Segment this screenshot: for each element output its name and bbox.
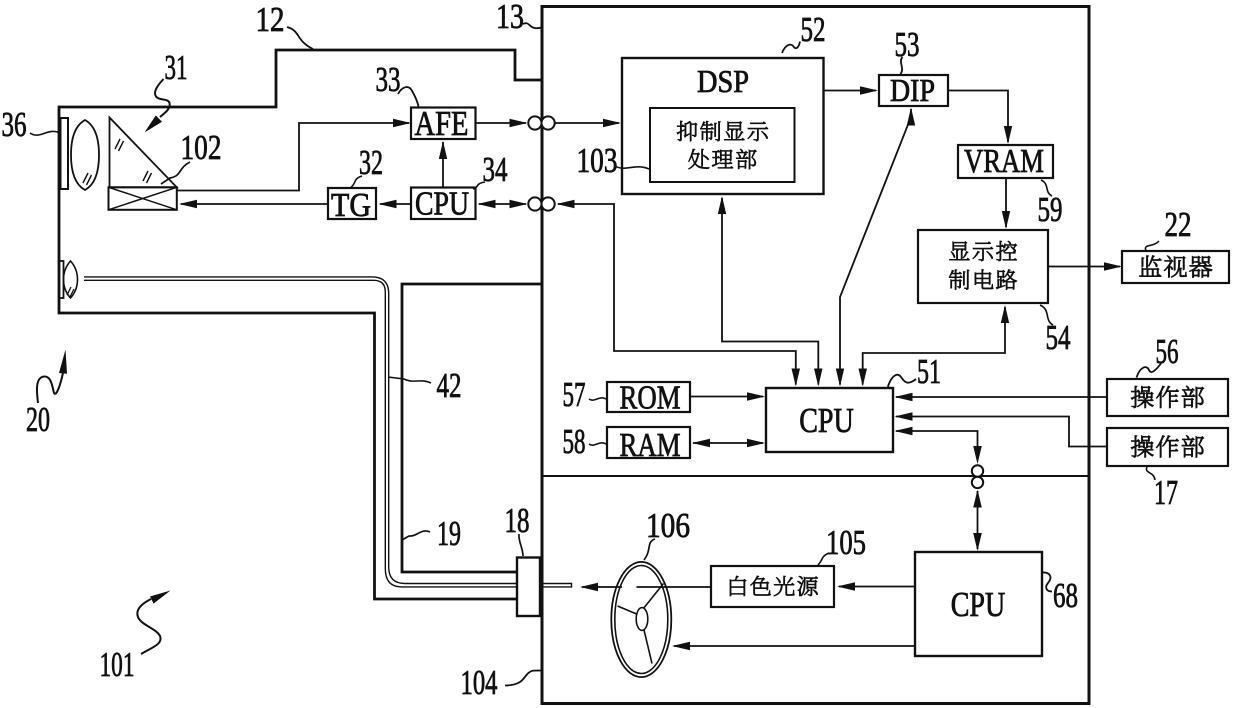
objective window 36 <box>61 118 69 189</box>
svg-text:DIP: DIP <box>890 72 935 108</box>
hatch in prism <box>115 139 124 151</box>
operation unit 56 <box>1107 379 1228 416</box>
display control circuit 54 <box>918 230 1048 303</box>
connector 18 <box>517 558 540 617</box>
white light source 105 <box>711 566 834 607</box>
wheel spoke left <box>618 606 637 614</box>
wire CPU51 to divider contacts <box>895 427 913 435</box>
ROM box 57 <box>607 382 690 412</box>
svg-text:VRAM: VRAM <box>964 143 1044 180</box>
wire RAM-CPU51 bidirectional <box>692 439 710 447</box>
svg-text:34: 34 <box>483 150 508 189</box>
svg-text:31: 31 <box>165 48 188 87</box>
operation unit 17 <box>1107 428 1228 466</box>
svg-text:20: 20 <box>26 400 50 439</box>
wire CPU34 to AFE <box>442 142 444 188</box>
svg-text:102: 102 <box>181 128 222 167</box>
wire op17 to CPU51 <box>896 417 1107 447</box>
objective lens 31 <box>71 120 99 190</box>
wire CPU34 to contacts bidirectional <box>478 200 496 208</box>
svg-text:TG: TG <box>331 187 371 224</box>
wheel spoke lower <box>644 630 652 664</box>
wire DIP to VRAM <box>948 91 1008 143</box>
wire VRAM to display control <box>1005 178 1007 227</box>
wire wheel to light guide <box>582 586 622 588</box>
svg-text:ROM: ROM <box>620 379 681 416</box>
CPU box 34 <box>411 188 476 220</box>
wire DIP-CPU51 bidirectional <box>907 108 915 126</box>
svg-text:52: 52 <box>801 10 826 49</box>
DIP box 53 <box>879 75 948 106</box>
svg-text:59: 59 <box>1038 190 1063 229</box>
wheel hub <box>636 608 648 631</box>
wire op56 to CPU51 <box>896 396 1107 398</box>
hatch in lens <box>83 173 92 185</box>
svg-text:AFE: AFE <box>415 104 469 143</box>
DSP box 52 <box>622 58 824 194</box>
wire CPU68 to white light source <box>839 586 915 588</box>
svg-text:53: 53 <box>895 25 920 64</box>
AFE box 33 <box>411 108 476 140</box>
universal cable inner outline <box>402 284 542 572</box>
wire ROM to CPU51 <box>690 396 763 398</box>
svg-text:CPU: CPU <box>951 585 1006 624</box>
svg-text:18: 18 <box>505 501 530 540</box>
connector contact pair signal <box>528 116 541 129</box>
svg-text:54: 54 <box>1046 318 1071 357</box>
wire DSP-CPU51 bidirectional <box>718 196 726 214</box>
svg-text:19: 19 <box>437 514 461 553</box>
svg-text:68: 68 <box>1053 576 1078 615</box>
endoscope outline top <box>59 50 542 107</box>
CPU box 68 <box>915 552 1042 656</box>
wire DSP to DIP <box>824 90 877 92</box>
svg-text:CPU: CPU <box>799 401 854 440</box>
svg-text:57: 57 <box>563 375 586 414</box>
svg-text:33: 33 <box>376 60 401 99</box>
light guide fiber 42 outer line <box>84 277 517 584</box>
TG box 32 <box>328 188 376 219</box>
wire contacts to CPU68 bidirectional <box>973 490 982 508</box>
wire contacts to CPU51 <box>557 200 575 208</box>
svg-text:RAM: RAM <box>620 427 681 464</box>
wire CPU68 to wheel <box>674 645 915 647</box>
svg-text:42: 42 <box>437 366 462 405</box>
wire CPU34 to TG <box>380 203 411 205</box>
hatch in lens 2 <box>67 287 74 297</box>
RAM box 58 <box>607 427 690 458</box>
wheel spoke upper <box>643 584 664 610</box>
CPU box 51 <box>766 388 893 452</box>
monitor box 22 <box>1122 251 1229 283</box>
svg-text:105: 105 <box>826 523 866 562</box>
svg-text:51: 51 <box>917 352 941 391</box>
wire sensor to AFE <box>177 123 410 191</box>
suppression display processing unit 103 <box>650 108 795 182</box>
svg-text:13: 13 <box>496 0 524 36</box>
svg-text:36: 36 <box>2 105 27 144</box>
divider between processor 13 and light source 104 <box>542 475 1089 477</box>
wire display control to monitor 22 <box>1048 266 1120 268</box>
svg-text:101: 101 <box>100 645 135 684</box>
light guide window <box>59 261 64 298</box>
divider contact pair <box>972 465 983 476</box>
light guide stub in light source <box>540 584 572 587</box>
svg-text:CPU: CPU <box>415 185 469 222</box>
connector contact pair control <box>528 197 541 210</box>
svg-text:17: 17 <box>1154 473 1178 512</box>
svg-text:58: 58 <box>563 422 586 461</box>
image sensor 102 <box>109 187 177 210</box>
svg-text:DSP: DSP <box>697 63 749 99</box>
processor housing 13 outline <box>542 7 1089 704</box>
light guide fiber 42 inner line <box>84 280 517 587</box>
wire AFE to connector contacts <box>476 122 527 124</box>
svg-text:22: 22 <box>1165 205 1192 244</box>
svg-text:104: 104 <box>461 663 498 702</box>
VRAM box 59 <box>958 145 1053 178</box>
wire TG to sensor <box>181 203 328 205</box>
rotary filter wheel 106 outer <box>611 562 671 677</box>
svg-text:12: 12 <box>256 0 285 39</box>
light guide entrance lens <box>64 261 78 298</box>
svg-text:32: 32 <box>359 143 383 182</box>
wire display-control-CPU51 bidirectional <box>1001 305 1009 323</box>
svg-text:103: 103 <box>577 141 618 180</box>
wire contacts to DSP <box>555 122 619 124</box>
prism 31 <box>110 118 177 188</box>
wire light source into wheel <box>637 586 712 588</box>
endoscope outline left and bottom <box>59 106 517 599</box>
rotary filter wheel 106 inner <box>615 566 668 674</box>
